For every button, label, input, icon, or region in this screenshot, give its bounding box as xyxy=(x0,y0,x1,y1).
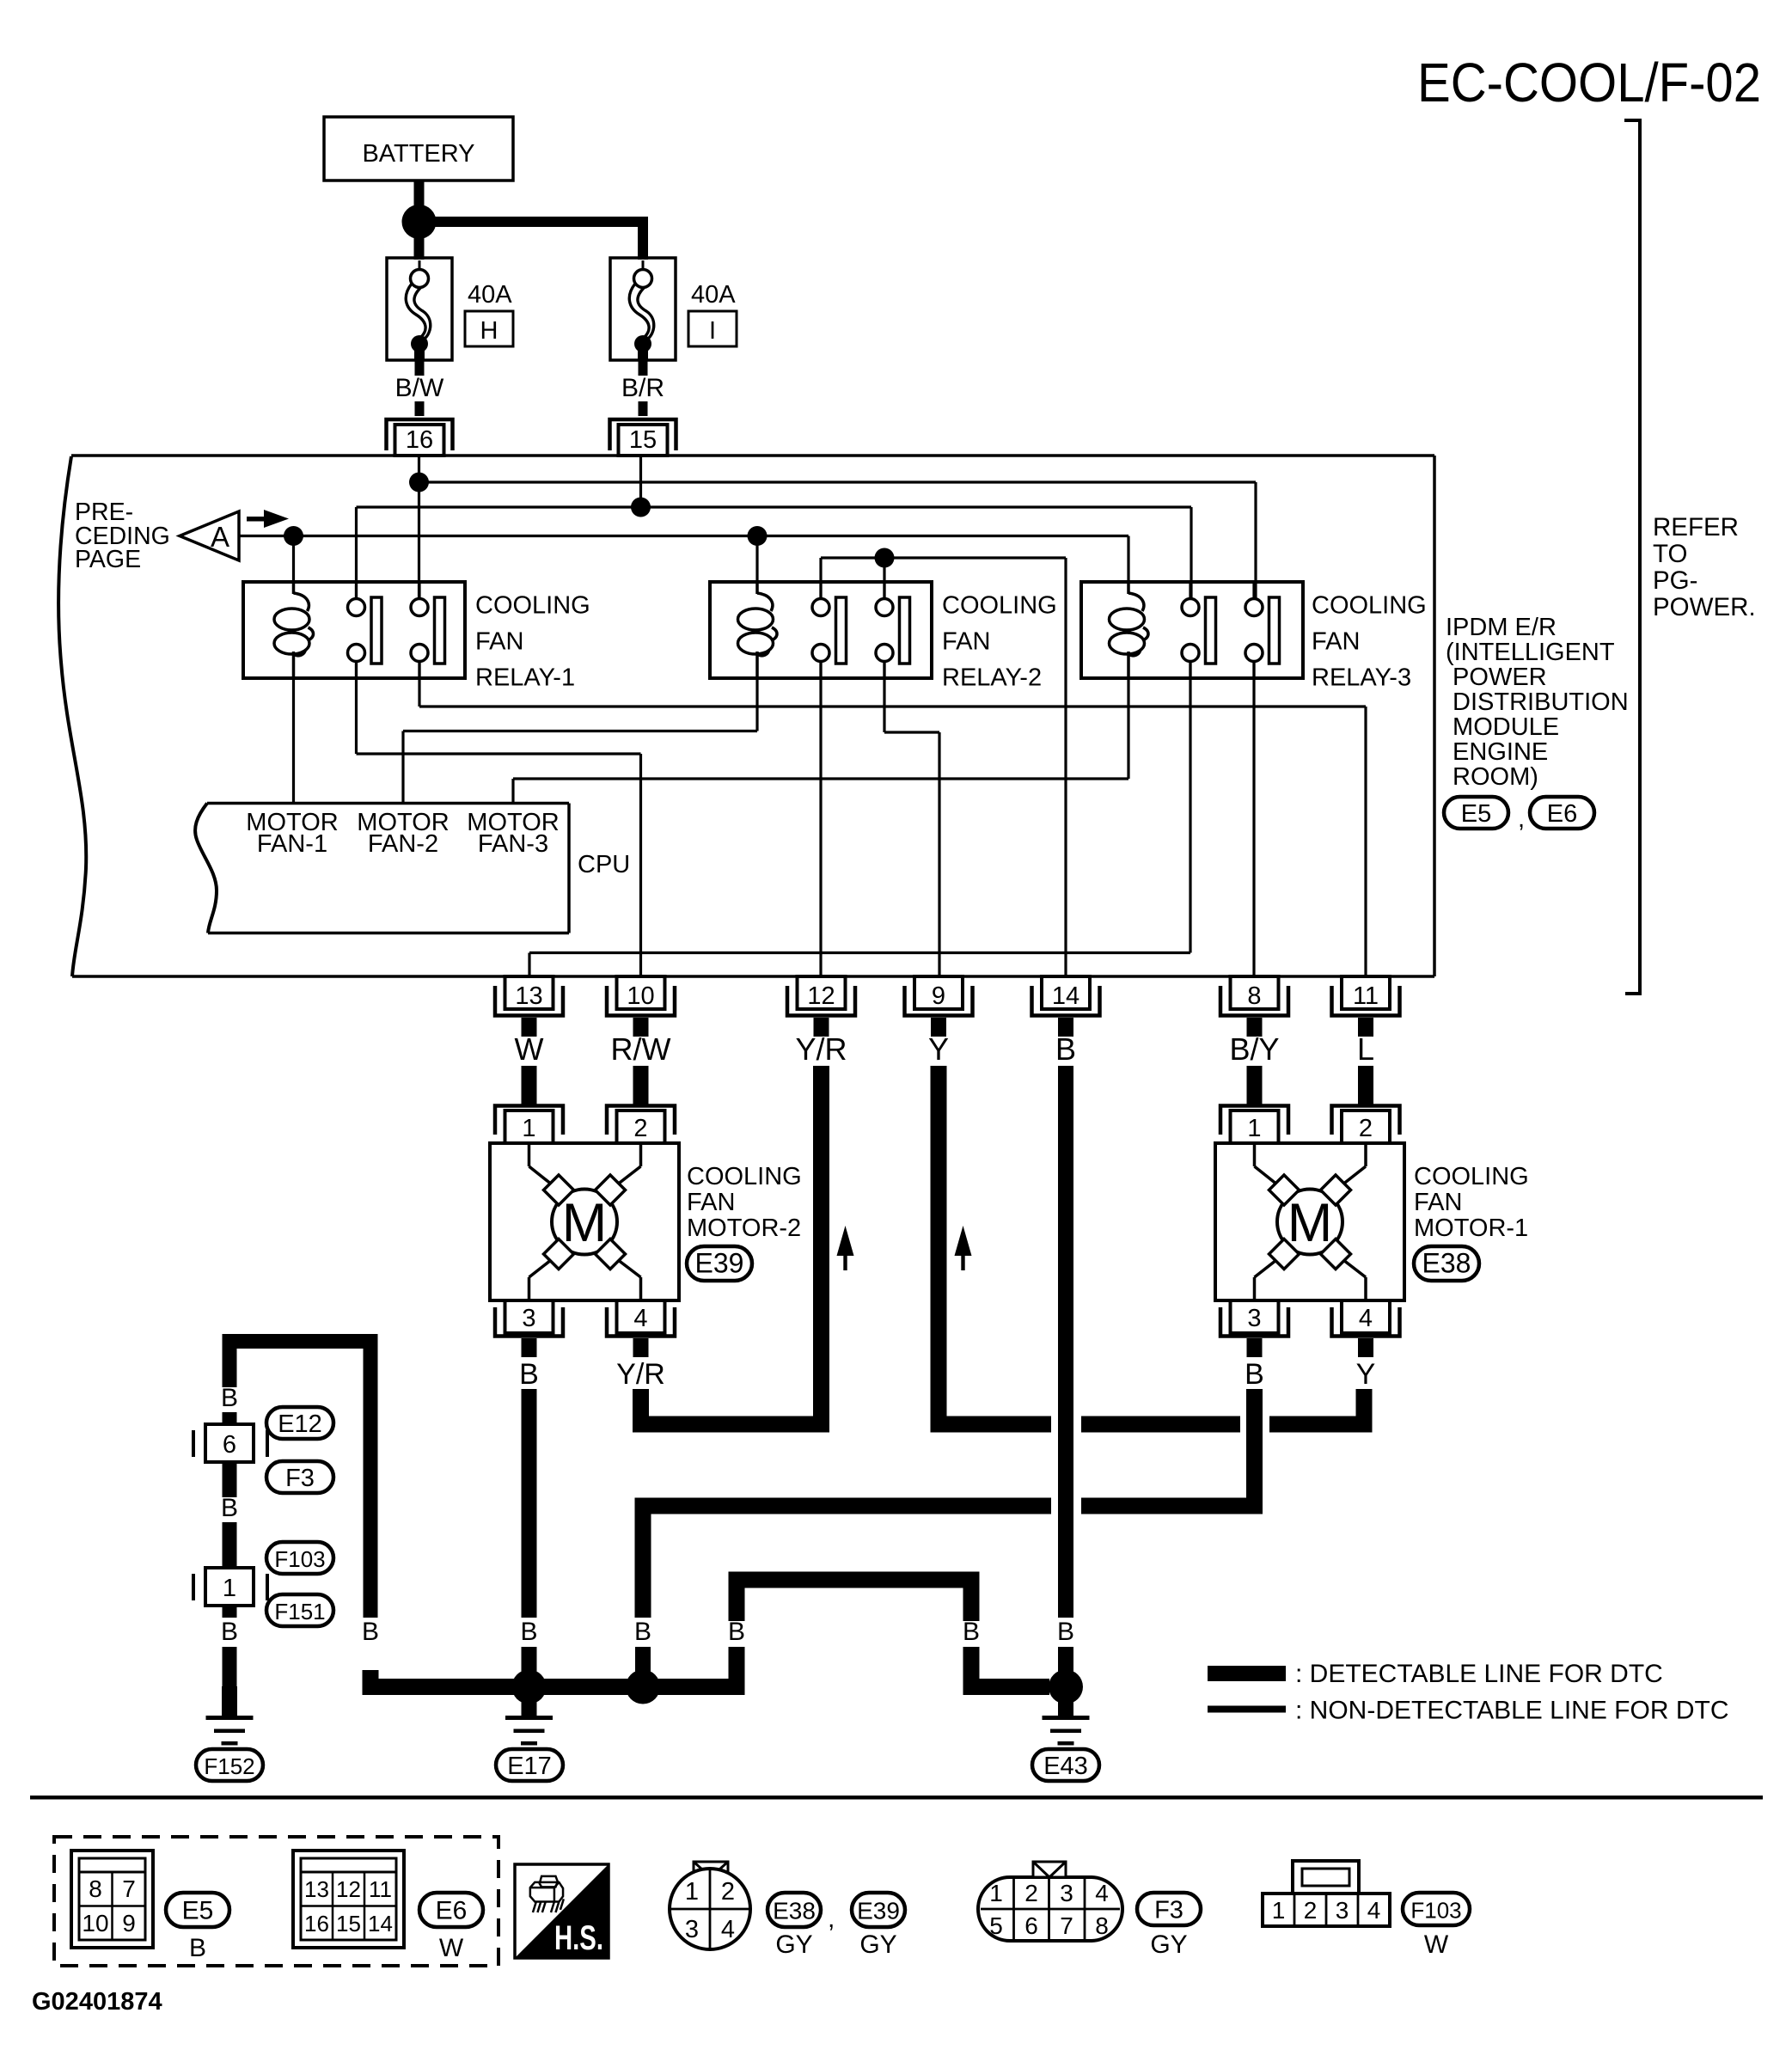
svg-text:B: B xyxy=(362,1618,379,1646)
svg-text:M: M xyxy=(562,1193,607,1253)
svg-text:G02401874: G02401874 xyxy=(32,1988,162,2016)
svg-text:R/W: R/W xyxy=(611,1031,671,1067)
svg-text:FAN-3: FAN-3 xyxy=(478,830,548,858)
svg-text:COOLING: COOLING xyxy=(687,1163,802,1190)
svg-text:H.S.: H.S. xyxy=(554,1919,603,1957)
svg-text:1: 1 xyxy=(989,1880,1003,1906)
svg-text:GY: GY xyxy=(1150,1930,1187,1959)
svg-text:GY: GY xyxy=(775,1930,812,1959)
svg-text:7: 7 xyxy=(1060,1912,1073,1939)
svg-text:MOTOR-1: MOTOR-1 xyxy=(1414,1214,1528,1242)
svg-text:1: 1 xyxy=(1272,1897,1286,1924)
svg-text:11: 11 xyxy=(1353,982,1379,1010)
svg-text:W: W xyxy=(439,1934,464,1962)
svg-text:EC-COOL/F-02: EC-COOL/F-02 xyxy=(1417,52,1761,113)
svg-text:RELAY-1: RELAY-1 xyxy=(475,664,575,692)
svg-text:FAN: FAN xyxy=(942,628,990,656)
svg-text:ENGINE: ENGINE xyxy=(1446,738,1548,766)
svg-text:B: B xyxy=(1055,1031,1076,1067)
svg-text:11: 11 xyxy=(369,1876,392,1902)
svg-text:POWER: POWER xyxy=(1446,664,1547,691)
svg-text:E39: E39 xyxy=(857,1898,900,1924)
svg-text:E43: E43 xyxy=(1043,1753,1088,1780)
svg-text:2: 2 xyxy=(721,1878,735,1906)
svg-text:F3: F3 xyxy=(285,1465,315,1492)
svg-text:H: H xyxy=(480,317,498,345)
svg-text:16: 16 xyxy=(406,426,433,454)
svg-text:PG-: PG- xyxy=(1653,566,1697,595)
svg-text:W: W xyxy=(515,1031,544,1067)
svg-text:B: B xyxy=(963,1618,980,1646)
svg-text:RELAY-2: RELAY-2 xyxy=(942,664,1042,692)
svg-text:12: 12 xyxy=(336,1876,361,1902)
svg-text:F151: F151 xyxy=(274,1599,325,1624)
svg-text:BATTERY: BATTERY xyxy=(362,140,474,168)
svg-text:8: 8 xyxy=(1247,982,1261,1010)
svg-text:W: W xyxy=(1424,1930,1449,1959)
svg-text:4: 4 xyxy=(1359,1305,1373,1332)
svg-text:10: 10 xyxy=(82,1910,108,1936)
svg-text:L: L xyxy=(1357,1031,1374,1067)
svg-text:6: 6 xyxy=(1024,1912,1038,1939)
svg-text:COOLING: COOLING xyxy=(475,592,590,620)
svg-text:PAGE: PAGE xyxy=(75,546,141,573)
svg-text:4: 4 xyxy=(721,1916,735,1943)
svg-text:E6: E6 xyxy=(436,1897,468,1925)
svg-text:FAN: FAN xyxy=(475,628,523,656)
svg-text:B: B xyxy=(1245,1358,1264,1391)
svg-text:15: 15 xyxy=(629,426,657,454)
svg-text:E6: E6 xyxy=(1547,800,1577,828)
svg-text:B: B xyxy=(520,1618,537,1646)
svg-text:F103: F103 xyxy=(1410,1898,1461,1924)
svg-text:FAN: FAN xyxy=(1312,628,1360,656)
svg-text:1: 1 xyxy=(522,1115,535,1142)
svg-text:F3: F3 xyxy=(1154,1897,1183,1924)
svg-text:B: B xyxy=(728,1618,745,1646)
svg-text:B: B xyxy=(189,1934,206,1962)
svg-text:2: 2 xyxy=(1024,1880,1038,1906)
svg-text:MODULE: MODULE xyxy=(1446,713,1559,741)
svg-text:CPU: CPU xyxy=(578,851,630,878)
svg-text:B: B xyxy=(221,1494,238,1522)
svg-text:POWER.: POWER. xyxy=(1653,593,1756,621)
svg-text:4: 4 xyxy=(1367,1897,1381,1924)
svg-text:15: 15 xyxy=(336,1911,361,1936)
svg-text:: DETECTABLE LINE FOR DTC: : DETECTABLE LINE FOR DTC xyxy=(1295,1660,1663,1688)
svg-text:: NON-DETECTABLE LINE FOR DTC: : NON-DETECTABLE LINE FOR DTC xyxy=(1295,1697,1729,1725)
svg-text:5: 5 xyxy=(989,1912,1003,1939)
svg-text:13: 13 xyxy=(304,1876,329,1902)
svg-text:F152: F152 xyxy=(204,1753,254,1779)
svg-text:Y/R: Y/R xyxy=(795,1031,847,1067)
svg-text:B: B xyxy=(634,1618,651,1646)
svg-text:E17: E17 xyxy=(507,1753,552,1780)
svg-text:,: , xyxy=(1518,805,1525,833)
svg-text:(INTELLIGENT: (INTELLIGENT xyxy=(1446,639,1615,666)
svg-text:3: 3 xyxy=(685,1916,699,1943)
svg-text:B/R: B/R xyxy=(621,374,664,402)
svg-text:A: A xyxy=(211,521,229,553)
svg-text:2: 2 xyxy=(633,1115,647,1142)
svg-text:REFER: REFER xyxy=(1653,513,1739,541)
svg-text:E5: E5 xyxy=(1461,800,1491,828)
svg-text:E38: E38 xyxy=(1422,1248,1471,1279)
svg-text:I: I xyxy=(709,317,716,345)
svg-text:4: 4 xyxy=(1095,1880,1109,1906)
svg-text:40A: 40A xyxy=(468,281,512,309)
svg-text:M: M xyxy=(1287,1193,1332,1253)
svg-text:9: 9 xyxy=(932,982,945,1010)
svg-text:12: 12 xyxy=(807,982,835,1010)
svg-text:1: 1 xyxy=(223,1575,236,1602)
svg-text:B: B xyxy=(221,1384,238,1412)
svg-text:RELAY-3: RELAY-3 xyxy=(1312,664,1411,692)
svg-text:Y: Y xyxy=(1356,1358,1376,1391)
svg-text:COOLING: COOLING xyxy=(1312,592,1427,620)
svg-text:GY: GY xyxy=(859,1930,896,1959)
svg-text:3: 3 xyxy=(1336,1897,1349,1924)
svg-text:4: 4 xyxy=(633,1305,647,1332)
svg-text:DISTRIBUTION: DISTRIBUTION xyxy=(1446,688,1629,716)
svg-text:MOTOR-2: MOTOR-2 xyxy=(687,1214,801,1242)
svg-text:IPDM E/R: IPDM E/R xyxy=(1446,614,1557,641)
svg-text:,: , xyxy=(828,1905,835,1933)
svg-text:14: 14 xyxy=(1052,982,1079,1010)
svg-text:FAN-1: FAN-1 xyxy=(257,830,327,858)
svg-text:E38: E38 xyxy=(773,1898,816,1924)
svg-text:B: B xyxy=(221,1618,238,1646)
svg-text:TO: TO xyxy=(1653,540,1687,568)
svg-text:13: 13 xyxy=(515,982,542,1010)
svg-text:B: B xyxy=(1057,1618,1074,1646)
svg-text:8: 8 xyxy=(89,1875,102,1902)
svg-text:7: 7 xyxy=(122,1875,136,1902)
svg-text:B/W: B/W xyxy=(395,374,444,402)
svg-text:1: 1 xyxy=(685,1878,699,1906)
svg-text:Y/R: Y/R xyxy=(616,1358,665,1391)
svg-text:9: 9 xyxy=(122,1910,136,1936)
svg-text:B: B xyxy=(519,1358,539,1391)
svg-text:B/Y: B/Y xyxy=(1229,1031,1279,1067)
svg-text:8: 8 xyxy=(1095,1912,1109,1939)
svg-text:E5: E5 xyxy=(182,1897,214,1925)
svg-text:3: 3 xyxy=(522,1305,535,1332)
svg-text:14: 14 xyxy=(368,1911,393,1936)
svg-text:COOLING: COOLING xyxy=(942,592,1057,620)
svg-text:Y: Y xyxy=(928,1031,949,1067)
svg-text:1: 1 xyxy=(1247,1115,1261,1142)
svg-text:FAN: FAN xyxy=(687,1189,735,1216)
svg-text:3: 3 xyxy=(1247,1305,1261,1332)
svg-text:2: 2 xyxy=(1359,1115,1373,1142)
svg-text:COOLING: COOLING xyxy=(1414,1163,1529,1190)
svg-text:3: 3 xyxy=(1060,1880,1073,1906)
svg-text:FAN: FAN xyxy=(1414,1189,1462,1216)
svg-text:E12: E12 xyxy=(278,1410,322,1438)
svg-text:2: 2 xyxy=(1304,1897,1318,1924)
svg-text:ROOM): ROOM) xyxy=(1446,763,1538,791)
svg-text:F103: F103 xyxy=(274,1546,325,1572)
svg-text:16: 16 xyxy=(304,1911,329,1936)
svg-text:40A: 40A xyxy=(691,281,736,309)
svg-text:10: 10 xyxy=(627,982,654,1010)
svg-text:E39: E39 xyxy=(695,1248,744,1279)
svg-text:FAN-2: FAN-2 xyxy=(368,830,438,858)
svg-text:6: 6 xyxy=(223,1431,236,1459)
